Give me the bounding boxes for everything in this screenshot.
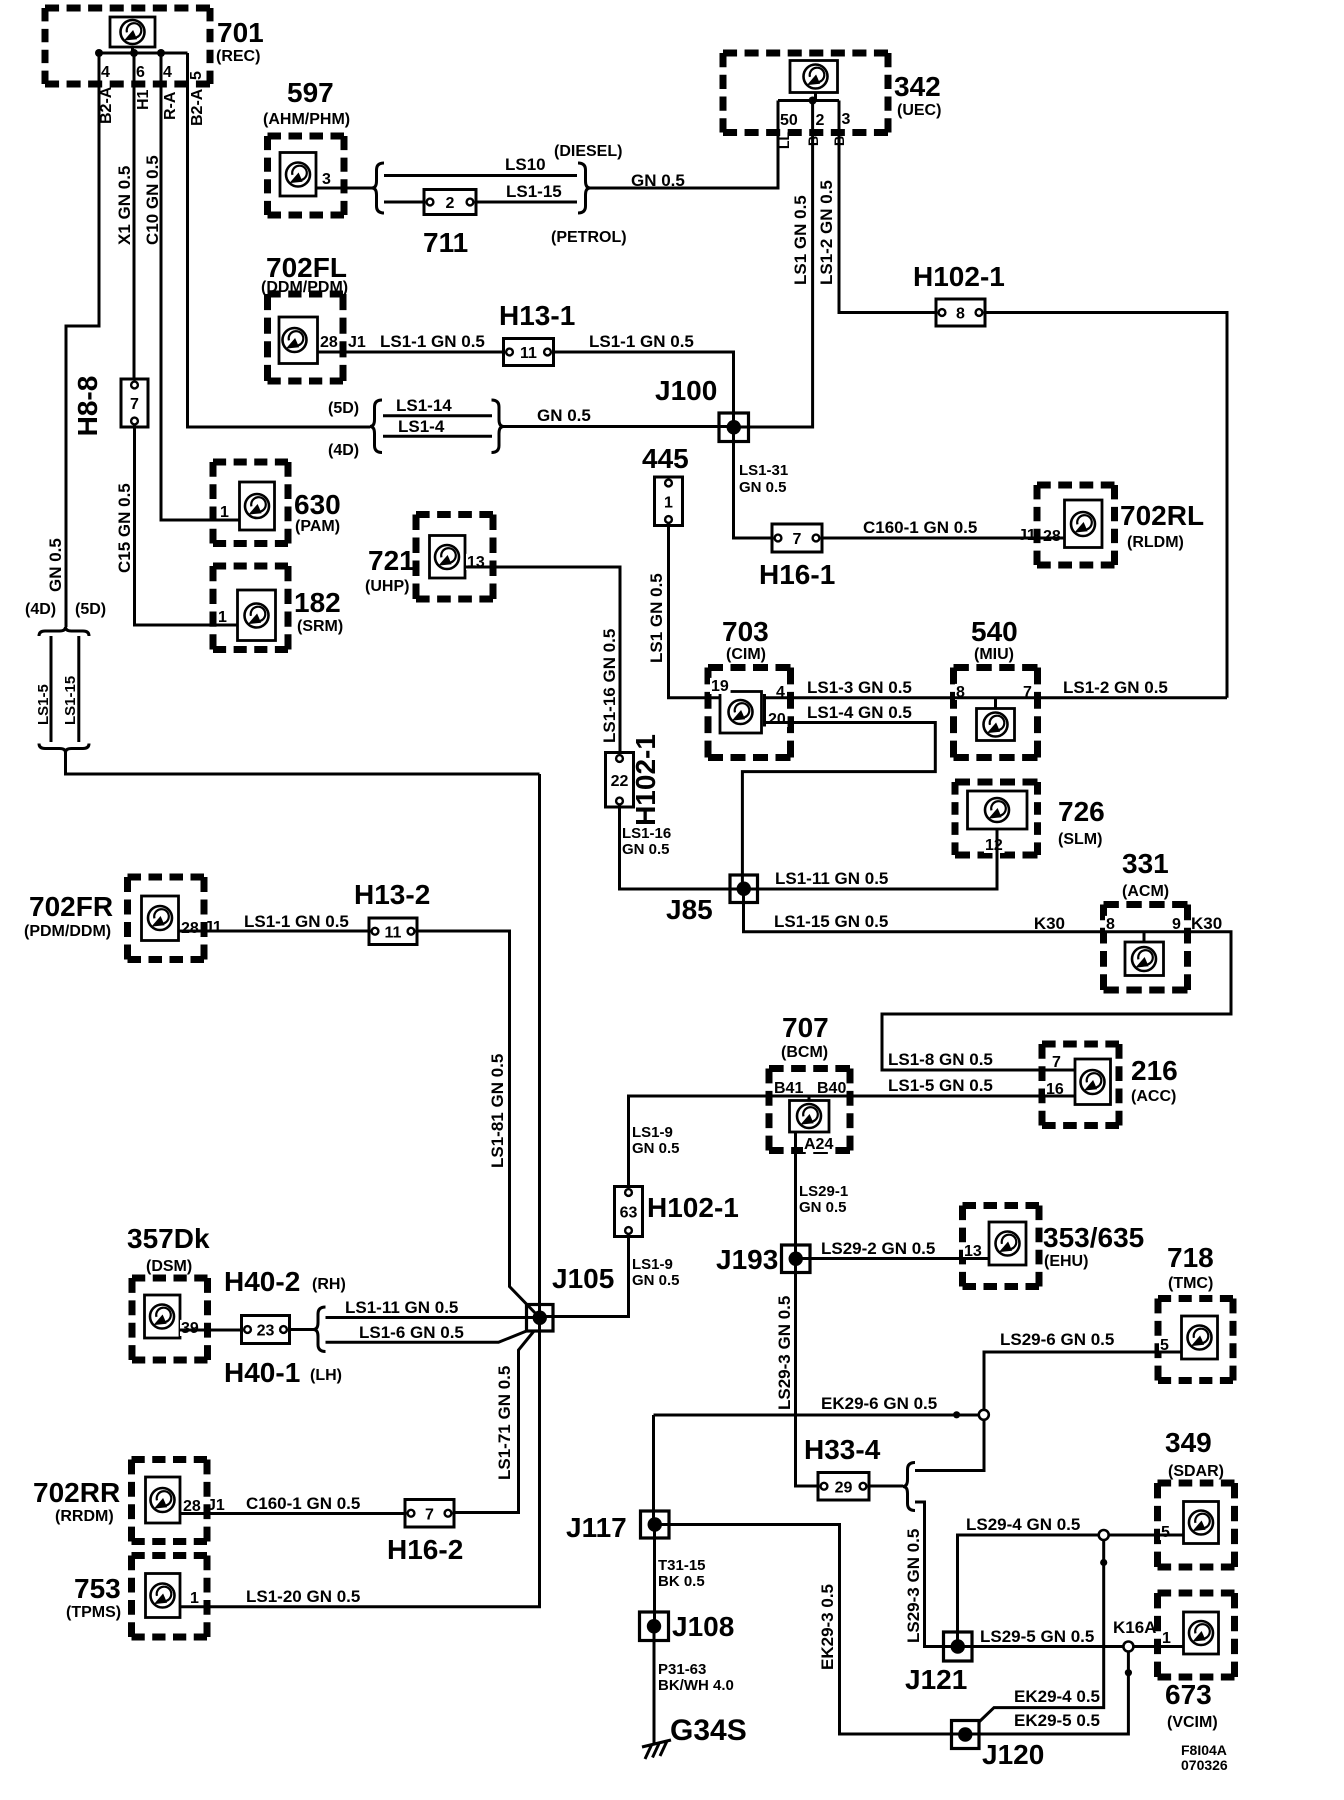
svg-text:LS29-5 GN 0.5: LS29-5 GN 0.5: [980, 1627, 1094, 1646]
svg-text:LS1-11 GN 0.5: LS1-11 GN 0.5: [345, 1298, 458, 1317]
svg-text:J1: J1: [204, 919, 222, 936]
wire LS29-4 GN 0.5 (J121 to 349 pin 5): [958, 1515, 1184, 1647]
wire C10/C15 GN 0.5 (701 pin 6 through H8-8 to 182): [115, 53, 238, 625]
wire (357Dk pin 39 to H40 connector): [180, 1329, 242, 1332]
wire LS1-2 GN 0.5 (342 pin 3 to H102-1): [817, 101, 936, 313]
svg-text:J1: J1: [207, 1497, 225, 1514]
svg-text:(RLDM): (RLDM): [1127, 534, 1184, 551]
junction J108: [640, 1611, 735, 1642]
svg-text:1: 1: [1162, 1630, 1171, 1647]
svg-text:331: 331: [1122, 848, 1169, 879]
svg-text:LS10: LS10: [505, 155, 546, 174]
svg-text:3: 3: [322, 171, 331, 188]
wire LS1-1 GN 0.5 (702FR to H13-2): [179, 912, 370, 931]
wire LS1-9 (H102-1 63 to J105): [540, 1237, 629, 1317]
svg-text:701: 701: [217, 17, 264, 48]
svg-text:J105: J105: [552, 1263, 614, 1294]
wire 701 pin 5 B2-A to 5D/4D brace: [188, 53, 371, 427]
svg-text:630: 630: [294, 489, 341, 520]
svg-text:LS1-31: LS1-31: [739, 462, 788, 479]
svg-text:J85: J85: [666, 894, 713, 925]
wire EK29-3 0.5 (J117 to J120): [655, 1525, 966, 1735]
module 349 (SDAR): [1158, 1427, 1235, 1567]
svg-text:(UEC): (UEC): [897, 102, 941, 119]
svg-text:BK 0.5: BK 0.5: [658, 1573, 705, 1590]
svg-text:H1: H1: [135, 89, 152, 110]
connector H40-2/H40-1 pin 23: [224, 1266, 346, 1388]
module 721 (UHP): [365, 515, 493, 600]
svg-text:LS29-6 GN 0.5: LS29-6 GN 0.5: [1000, 1330, 1114, 1349]
svg-text:LS29-1: LS29-1: [799, 1183, 848, 1200]
svg-text:GN 0.5: GN 0.5: [799, 1199, 847, 1216]
svg-text:342: 342: [894, 71, 941, 102]
module 702RL (RLDM): [1018, 485, 1204, 565]
module 718 (TMC): [1158, 1242, 1233, 1381]
wire LS1-11 GN 0.5 (H40 brace to J105): [326, 1298, 540, 1318]
svg-text:H13-2: H13-2: [354, 879, 430, 910]
brace diesel/petrol split: [372, 143, 627, 246]
svg-text:B2-A: B2-A: [189, 88, 206, 126]
svg-text:2: 2: [446, 195, 455, 212]
junction J105: [527, 1263, 615, 1331]
junction J193: [716, 1244, 810, 1275]
svg-text:H102-1: H102-1: [913, 261, 1005, 292]
svg-text:EK29-5 0.5: EK29-5 0.5: [1014, 1711, 1100, 1730]
wire EK29-5 0.5 (LS29-5 node to J120): [965, 1652, 1132, 1735]
junction J117: [566, 1511, 669, 1543]
svg-text:(SDAR): (SDAR): [1168, 1463, 1224, 1480]
svg-text:19: 19: [711, 678, 729, 695]
svg-text:GN 0.5: GN 0.5: [632, 1140, 680, 1157]
svg-text:K16A: K16A: [1113, 1618, 1156, 1637]
svg-text:R-A: R-A: [162, 91, 179, 120]
ground G34S: [642, 1714, 747, 1759]
svg-text:LS1-9: LS1-9: [632, 1256, 673, 1273]
svg-text:X1 GN 0.5: X1 GN 0.5: [115, 166, 134, 245]
wire LS1-5 GN 0.5 (H102-1 63 via 707 to 216 pin 16): [629, 1076, 1076, 1187]
wire LS1-15 (petrol) through 711: [384, 182, 577, 202]
svg-text:H102-1: H102-1: [647, 1192, 739, 1223]
connector H13-2 pin 11: [354, 879, 430, 945]
svg-text:7: 7: [793, 531, 802, 548]
svg-text:711: 711: [423, 227, 468, 258]
wire LS1-1 GN 0.5 (702FL to H13-1): [318, 332, 504, 352]
svg-text:LS1-5 GN 0.5: LS1-5 GN 0.5: [888, 1076, 993, 1095]
junction J120: [952, 1721, 1045, 1771]
svg-text:707: 707: [782, 1012, 829, 1043]
svg-text:357Dk: 357Dk: [127, 1223, 210, 1254]
module 702FL (DDM/PDM): [261, 252, 366, 381]
module 182 (SRM): [213, 566, 343, 650]
junction J121: [905, 1632, 972, 1695]
svg-text:673: 673: [1165, 1679, 1212, 1710]
svg-text:B40: B40: [817, 1080, 846, 1097]
module 342 (UEC): [723, 53, 941, 149]
svg-text:LS1 GN 0.5: LS1 GN 0.5: [647, 573, 666, 663]
wire LS29-6 branch (brace to 718 pin 5): [915, 1330, 1182, 1471]
connector H8-8 pin 7: [72, 376, 148, 437]
svg-text:F8I04A: F8I04A: [1181, 1742, 1227, 1758]
svg-text:C160-1 GN 0.5: C160-1 GN 0.5: [246, 1494, 360, 1513]
wire LS1-16 GN 0.5 (H102-1 22 to J85): [620, 807, 744, 889]
svg-text:(4D): (4D): [328, 442, 359, 459]
svg-text:P31-63: P31-63: [658, 1661, 706, 1678]
svg-text:H16-1: H16-1: [759, 559, 835, 590]
svg-text:B2-A: B2-A: [98, 86, 115, 124]
svg-text:LS1-16 GN 0.5: LS1-16 GN 0.5: [600, 629, 619, 743]
svg-text:LS1-81 GN 0.5: LS1-81 GN 0.5: [488, 1054, 507, 1168]
module 630 (PAM): [213, 462, 341, 544]
wire LS1-15 GN 0.5 (J85 via 331 K30 to 216 pin 7): [744, 889, 1232, 1070]
svg-text:(ACC): (ACC): [1131, 1088, 1176, 1105]
connector H16-1 pin 7: [759, 524, 835, 590]
svg-text:(TPMS): (TPMS): [66, 1604, 121, 1621]
brace (4D)/(5D) split LS1-5 LS1-15: [25, 601, 106, 753]
connector H33-4 pin 29: [804, 1434, 881, 1500]
module 726 (SLM): [955, 782, 1105, 855]
svg-text:8: 8: [956, 306, 965, 323]
svg-text:(RH): (RH): [312, 1276, 346, 1293]
svg-text:28: 28: [181, 920, 199, 937]
svg-text:702FR: 702FR: [29, 891, 113, 922]
svg-text:LS1-2 GN 0.5: LS1-2 GN 0.5: [1063, 678, 1168, 697]
svg-text:B41: B41: [774, 1080, 803, 1097]
svg-text:445: 445: [642, 443, 689, 474]
connector H102-1 pin 8: [913, 261, 1005, 326]
svg-text:7: 7: [1052, 1054, 1061, 1071]
wire P31-63 BK/WH 4.0 (J108 to ground): [654, 1626, 734, 1743]
svg-text:1: 1: [220, 504, 229, 521]
svg-text:703: 703: [722, 616, 769, 647]
wire 342 icon bus: [778, 93, 839, 105]
wire LS1-3 GN 0.5 (703 pin 4 to 540 pin 8/7): [765, 678, 1228, 709]
svg-text:LS29-2 GN 0.5: LS29-2 GN 0.5: [821, 1239, 935, 1258]
svg-text:EK29-4 0.5: EK29-4 0.5: [1014, 1687, 1100, 1706]
connector H102-1 pin 63: [615, 1124, 739, 1289]
drawing number: [1181, 1742, 1228, 1773]
wire LS1-31 GN 0.5 (J100 to H16-1): [734, 427, 789, 538]
module 753 (TPMS): [66, 1556, 207, 1638]
connector 711 pin 2: [423, 190, 476, 259]
svg-text:J108: J108: [672, 1611, 734, 1642]
svg-text:J1: J1: [1018, 527, 1036, 544]
svg-text:H33-4: H33-4: [804, 1434, 881, 1465]
module 707 (BCM): [769, 1012, 850, 1153]
svg-text:LS1-6 GN 0.5: LS1-6 GN 0.5: [359, 1323, 464, 1342]
wire LS1 GN 0.5 (342 pin 2 to J100): [734, 101, 813, 428]
svg-text:12: 12: [985, 837, 1003, 854]
svg-text:(DDM/PDM): (DDM/PDM): [261, 279, 348, 296]
svg-text:7: 7: [130, 396, 139, 413]
svg-text:(SLM): (SLM): [1058, 831, 1102, 848]
svg-text:LS29-4 GN 0.5: LS29-4 GN 0.5: [966, 1515, 1080, 1534]
wire LS1 GN 0.5 (445 to 703 pin 19): [647, 526, 720, 698]
svg-text:(DIESEL): (DIESEL): [554, 143, 622, 160]
svg-text:LS1-20 GN 0.5: LS1-20 GN 0.5: [246, 1587, 360, 1606]
wire LS1-81 GN 0.5 (H13-2 to J105): [417, 931, 540, 1318]
wire LS1-1 GN 0.5 (H13-1 to J100): [554, 332, 734, 427]
svg-text:20: 20: [768, 711, 786, 728]
svg-text:721: 721: [368, 545, 415, 576]
svg-text:A24: A24: [804, 1136, 833, 1153]
connector H13-1 pin 11: [499, 300, 575, 366]
svg-text:(EHU): (EHU): [1044, 1253, 1088, 1270]
svg-text:070326: 070326: [1181, 1757, 1228, 1773]
wire LS1-14 (5D): [383, 396, 492, 416]
module 597 (AHM/PHM): [263, 77, 350, 215]
svg-text:J120: J120: [982, 1739, 1044, 1770]
svg-text:11: 11: [520, 345, 537, 362]
junction J85: [666, 875, 758, 925]
svg-text:1: 1: [664, 494, 673, 511]
svg-text:182: 182: [294, 587, 341, 618]
svg-text:2: 2: [816, 112, 825, 129]
svg-text:GN 0.5: GN 0.5: [739, 479, 787, 496]
wire LS29-3 GN 0.5 (brace to J121): [904, 1502, 958, 1647]
svg-text:(TMC): (TMC): [1168, 1275, 1213, 1292]
wire C160-1 GN 0.5 (H16-1 to 702RL pin 28): [822, 518, 1065, 538]
svg-text:(4D): (4D): [25, 601, 56, 618]
svg-text:LS1-9: LS1-9: [632, 1124, 673, 1141]
svg-text:LS1-1 GN 0.5: LS1-1 GN 0.5: [380, 332, 485, 351]
wire 701 pin bus: [95, 47, 206, 126]
svg-text:EK29-3 0.5: EK29-3 0.5: [818, 1584, 837, 1670]
svg-text:349: 349: [1165, 1427, 1212, 1458]
svg-text:LS1-1 GN 0.5: LS1-1 GN 0.5: [244, 912, 349, 931]
svg-text:LS1-4: LS1-4: [398, 417, 445, 436]
wire LS1-4 GN 0.5 (703 pin 20 to J85): [742, 703, 935, 889]
svg-text:LS1-11 GN 0.5: LS1-11 GN 0.5: [775, 869, 888, 888]
svg-text:EK29-6 GN 0.5: EK29-6 GN 0.5: [821, 1394, 937, 1413]
wire EK29-6 GN 0.5 (J117 to LS29-6 node): [654, 1394, 984, 1525]
module 353/635 (EHU): [963, 1206, 1145, 1287]
svg-text:LS1-16: LS1-16: [622, 825, 671, 842]
svg-text:50: 50: [780, 112, 798, 129]
module 702FR (PDM/DDM): [24, 877, 222, 960]
wire GN 0.5 (brace to 342 pin 50): [590, 101, 778, 191]
wire LS1-4 (4D): [383, 417, 492, 436]
svg-text:GN 0.5: GN 0.5: [632, 1272, 680, 1289]
module 673 (VCIM): [1113, 1593, 1235, 1731]
module 216 (ACC): [1042, 1044, 1178, 1126]
svg-text:K30: K30: [1034, 914, 1065, 933]
module 702RR (RRDM): [33, 1460, 225, 1542]
svg-text:23: 23: [257, 1323, 275, 1340]
module 701 (REC): [45, 8, 264, 84]
wire LS1-2 (H102-1 pin 8 to 540 pin 7): [985, 313, 1227, 698]
svg-text:LS1-5: LS1-5: [35, 684, 52, 725]
svg-text:29: 29: [835, 1479, 853, 1496]
module 703 (CIM): [708, 616, 791, 758]
svg-text:(BCM): (BCM): [781, 1044, 828, 1061]
svg-text:J100: J100: [655, 375, 717, 406]
wire LS1-71 GN 0.5 (J105 to H16-2): [454, 1331, 534, 1513]
svg-text:C15 GN 0.5: C15 GN 0.5: [115, 483, 134, 573]
svg-text:(RRDM): (RRDM): [55, 1508, 114, 1525]
svg-text:(PETROL): (PETROL): [551, 229, 627, 246]
svg-text:H8-8: H8-8: [72, 376, 103, 437]
svg-text:540: 540: [971, 616, 1018, 647]
svg-text:(LH): (LH): [310, 1367, 342, 1384]
wire LS29-5 GN 0.5 (J121 to 673 pin 1): [958, 1627, 1184, 1652]
svg-text:1: 1: [218, 609, 227, 626]
svg-text:(AHM/PHM): (AHM/PHM): [263, 111, 350, 128]
svg-text:353/635: 353/635: [1043, 1222, 1144, 1253]
junction J100: [655, 375, 749, 442]
svg-text:1: 1: [190, 1590, 199, 1607]
wire LS29-2 GN 0.5 (J193 to 353/635 pin 13): [796, 1239, 990, 1259]
svg-text:702RR: 702RR: [33, 1477, 120, 1508]
svg-text:63: 63: [620, 1205, 638, 1222]
svg-text:726: 726: [1058, 796, 1105, 827]
svg-text:4: 4: [163, 64, 172, 81]
svg-text:J121: J121: [905, 1664, 967, 1695]
svg-text:(MIU): (MIU): [974, 646, 1014, 663]
svg-text:LS29-3 GN 0.5: LS29-3 GN 0.5: [775, 1296, 794, 1410]
svg-text:(CIM): (CIM): [726, 646, 766, 663]
svg-text:(VCIM): (VCIM): [1167, 1714, 1218, 1731]
wire LS1-6 GN 0.5 (H40 brace to J105): [326, 1323, 527, 1342]
svg-text:G34S: G34S: [670, 1714, 747, 1747]
svg-text:11: 11: [385, 924, 402, 941]
module 357Dk (DSM): [127, 1223, 210, 1360]
connector H102-1 pin 22: [606, 734, 662, 826]
svg-text:LS1-8 GN 0.5: LS1-8 GN 0.5: [888, 1050, 993, 1069]
svg-text:(SRM): (SRM): [297, 618, 343, 635]
svg-text:5: 5: [1161, 1524, 1170, 1541]
svg-text:GN 0.5: GN 0.5: [46, 538, 65, 592]
svg-text:(REC): (REC): [216, 48, 260, 65]
svg-text:3: 3: [842, 111, 851, 128]
svg-text:H40-1: H40-1: [224, 1357, 300, 1388]
wire LS29-3 GN 0.5 (J193 to H33-4): [775, 1259, 818, 1487]
wire LS1-16 GN 0.5 (721 pin 13 to H102-1 pin 22): [465, 567, 620, 753]
svg-text:GN 0.5: GN 0.5: [631, 171, 685, 190]
module 331 (ACM): [1034, 848, 1222, 990]
svg-text:718: 718: [1167, 1242, 1214, 1273]
svg-text:J117: J117: [566, 1512, 627, 1543]
svg-text:6: 6: [136, 64, 145, 81]
svg-text:LS1-2 GN 0.5: LS1-2 GN 0.5: [817, 180, 836, 285]
svg-text:LS1 GN 0.5: LS1 GN 0.5: [791, 195, 810, 285]
svg-text:(PAM): (PAM): [295, 518, 340, 535]
svg-text:LS1-15 GN 0.5: LS1-15 GN 0.5: [774, 912, 888, 931]
wire LS1-11 GN 0.5 (J85 to 726 pin 12): [744, 829, 998, 889]
wire main LS1 vertical (brace to 753): [180, 774, 540, 1607]
svg-text:T31-15: T31-15: [658, 1557, 706, 1574]
svg-text:GN 0.5: GN 0.5: [537, 406, 591, 425]
svg-text:28: 28: [320, 334, 338, 351]
svg-text:702RL: 702RL: [1120, 500, 1204, 531]
brace (5D)/(4D) LS1-14 LS1-4: [328, 400, 504, 459]
connector 445 pin 1: [642, 443, 689, 526]
svg-text:BK/WH 4.0: BK/WH 4.0: [658, 1677, 734, 1694]
wire from LS1-5/15 brace to main vertical: [66, 753, 540, 775]
svg-text:4: 4: [101, 64, 110, 81]
wire GN 0.5 (brace to J100): [504, 406, 734, 427]
svg-text:LS1-14: LS1-14: [396, 396, 452, 415]
svg-text:(PDM/DDM): (PDM/DDM): [24, 923, 111, 940]
svg-text:H13-1: H13-1: [499, 300, 575, 331]
brace H33-4 split: [869, 1463, 915, 1511]
svg-text:K30: K30: [1191, 914, 1222, 933]
svg-text:216: 216: [1131, 1055, 1178, 1086]
svg-text:J1: J1: [348, 334, 366, 351]
module 540 (MIU): [954, 616, 1038, 758]
svg-text:C160-1 GN 0.5: C160-1 GN 0.5: [863, 518, 977, 537]
brace H40 split LS1-11/LS1-6: [290, 1307, 326, 1352]
wire X1 GN 0.5 (701 pin 4 to 4D/5D brace): [46, 53, 134, 627]
svg-text:597: 597: [287, 77, 334, 108]
wire EK29-4 0.5 (LS29-4 node to J120): [980, 1540, 1108, 1722]
svg-text:(UHP): (UHP): [365, 578, 409, 595]
svg-text:(ACM): (ACM): [1122, 883, 1169, 900]
svg-text:J193: J193: [716, 1244, 778, 1275]
wire LS1-20 GN 0.5 (753 to main vertical): [246, 1587, 360, 1606]
svg-text:LS1-71 GN 0.5: LS1-71 GN 0.5: [495, 1366, 514, 1480]
svg-text:LS1-4 GN 0.5: LS1-4 GN 0.5: [807, 703, 912, 722]
svg-text:H40-2: H40-2: [224, 1266, 300, 1297]
wire LS29-1 GN 0.5 (707 A24 to J193): [796, 1132, 849, 1259]
svg-text:C10 GN 0.5: C10 GN 0.5: [143, 155, 162, 245]
svg-text:GN 0.5: GN 0.5: [622, 841, 670, 858]
svg-text:(5D): (5D): [75, 601, 106, 618]
svg-text:LS1-15: LS1-15: [506, 182, 562, 201]
svg-text:LS1-1 GN 0.5: LS1-1 GN 0.5: [589, 332, 694, 351]
wire LS10 (diesel): [384, 155, 577, 176]
wire 597 pin 3 to diesel/petrol brace: [316, 187, 372, 190]
svg-text:LS1-3 GN 0.5: LS1-3 GN 0.5: [807, 678, 912, 697]
svg-text:5: 5: [188, 71, 205, 80]
svg-text:H102-1: H102-1: [630, 734, 661, 826]
svg-text:(5D): (5D): [328, 400, 359, 417]
svg-text:7: 7: [425, 1506, 434, 1523]
svg-text:H16-2: H16-2: [387, 1534, 463, 1565]
svg-text:22: 22: [611, 773, 629, 790]
svg-text:LS29-3 GN 0.5: LS29-3 GN 0.5: [904, 1529, 923, 1643]
wire 701 pin 4 R-A to 630: [161, 53, 240, 520]
connector H16-2 pin 7: [387, 1500, 463, 1566]
wire C160-1 GN 0.5 (702RR to H16-2): [180, 1494, 405, 1514]
wire T31-15 BK 0.5 (J117 to J108): [655, 1525, 706, 1627]
svg-text:(DSM): (DSM): [146, 1258, 192, 1275]
svg-text:753: 753: [74, 1573, 121, 1604]
svg-text:LS1-15: LS1-15: [62, 676, 79, 725]
